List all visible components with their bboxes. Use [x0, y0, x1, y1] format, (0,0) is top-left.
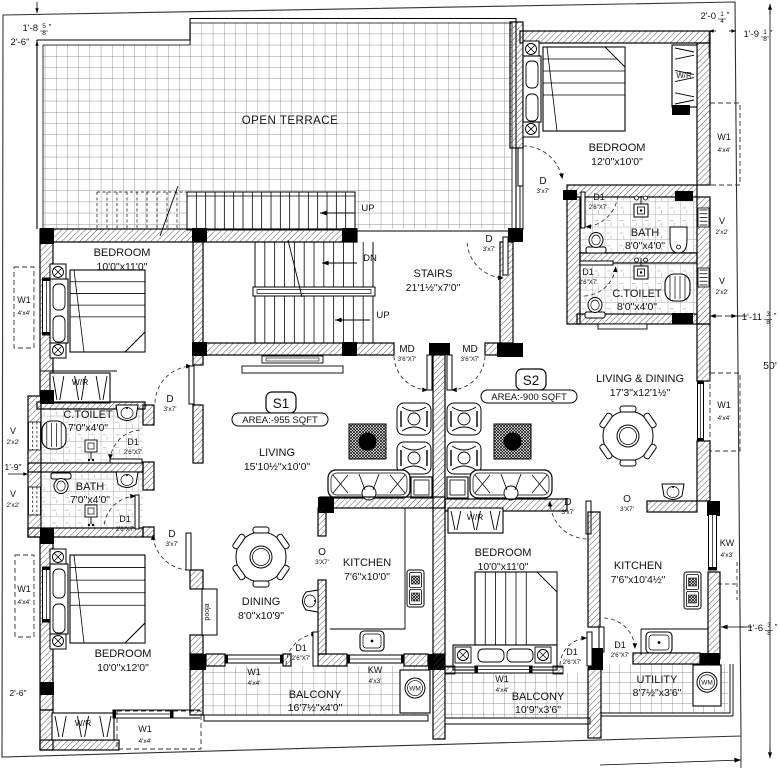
stove S2 [684, 572, 701, 609]
S1 c.toilet floor tiles [41, 405, 143, 463]
terrace border [37, 19, 516, 230]
wall balcony/utility divider [588, 668, 601, 738]
utility outer edge [601, 664, 733, 716]
shower S2 bath [634, 196, 648, 217]
wall S1 bath east upper [143, 462, 154, 490]
svg-text:S1: S1 [273, 396, 290, 411]
wall balcony S1 north c [404, 654, 428, 666]
wall S1 niche south [40, 740, 119, 750]
right property dim vertical [740, 736, 742, 768]
ventilator V S1 ctoilet [29, 422, 41, 450]
svg-text:KW: KW [720, 538, 735, 548]
door arc D S1 bed2 [151, 533, 191, 570]
wall S2 living east lower [697, 441, 710, 501]
svg-text:C.TOILET: C.TOILET [63, 409, 113, 421]
door arc D1 balcony S1 [286, 632, 318, 666]
svg-text:STAIRS: STAIRS [414, 268, 453, 280]
drain S1 bath [85, 505, 97, 526]
wall S1 bedroom2 west bottom [40, 710, 53, 750]
thin wall stub below S2 bedroom west [519, 186, 521, 230]
UP arrow 2 [335, 318, 370, 323]
toilet WC S2 bath [586, 233, 606, 254]
svg-text:2'6"X7': 2'6"X7' [611, 653, 629, 659]
svg-text:2'6"X7': 2'6"X7' [589, 205, 607, 211]
label S1 box [266, 392, 296, 413]
balcony S1 floor [204, 666, 428, 715]
bathtub S2 ctoilet [665, 274, 690, 301]
svg-text:5: 5 [42, 23, 46, 30]
svg-text:": " [727, 11, 730, 20]
wall S1 kitchen west lower [318, 580, 326, 654]
basin S1 ctoilet [116, 405, 138, 421]
svg-text:WM: WM [701, 680, 713, 687]
door arc D1 S2 utility [599, 618, 637, 652]
svg-text:D: D [539, 176, 546, 187]
door arc D S1 bed1 [155, 364, 194, 404]
wardrobe W/R S1 upper [50, 373, 110, 403]
window W1 S1 bedroom2 [43, 567, 51, 622]
dim 1'-11 3/8 right [710, 314, 722, 318]
svg-text:2'-6": 2'-6" [10, 688, 27, 698]
svg-text:2'-0: 2'-0 [700, 11, 716, 22]
dining table S1 [232, 527, 290, 587]
svg-text:DN: DN [363, 253, 377, 264]
svg-text:BATH: BATH [76, 481, 105, 493]
svg-text:DINING: DINING [242, 596, 281, 608]
door arc D1 S1 ctoilet [108, 430, 142, 463]
terrace stair dashed steps [97, 192, 187, 230]
wall S2 ctoilet south [577, 314, 697, 324]
svg-text:BALCONY: BALCONY [289, 689, 342, 701]
column B1 [40, 390, 54, 404]
balcony S1 south edge [204, 715, 428, 721]
wall stairs west [193, 242, 203, 343]
svg-text:1'-9": 1'-9" [5, 462, 22, 472]
column A3 [342, 228, 357, 242]
ventilator V S1 bath [29, 487, 41, 515]
party wall top chunk [429, 343, 450, 355]
basin S1 dining [303, 590, 319, 612]
svg-text:": " [774, 312, 777, 321]
shelf below S2 ctoilet [598, 324, 647, 329]
wall S2 kitchen west [588, 512, 600, 627]
wall line bedroom2/balcony S2 [445, 666, 563, 668]
carpet crosshatch S1 [349, 424, 386, 459]
svg-text:2'x2': 2'x2' [716, 289, 729, 296]
column utility NE [700, 653, 720, 665]
washing machine S2 [693, 665, 721, 706]
svg-text:2'6"X7': 2'6"X7' [579, 280, 597, 286]
sofa S2 [470, 470, 552, 500]
kitchen counter S1 [330, 508, 405, 629]
armchair S1 b [397, 442, 431, 474]
open terrace floor grid [43, 23, 512, 229]
bed S1 bedroom2 [50, 549, 145, 649]
label S2 box [516, 369, 546, 390]
wall S1 bedroom2 west [40, 537, 53, 710]
wall S1 bedroom1 west [40, 242, 53, 396]
bottom dimension line [600, 758, 741, 765]
window W1 balcony S1 [225, 655, 283, 663]
svg-text:10'9"x3'6": 10'9"x3'6" [515, 704, 561, 716]
svg-text:3'X7': 3'X7' [315, 559, 329, 566]
dim 1'-6 3/8 right [721, 625, 744, 630]
svg-text:MD: MD [399, 344, 415, 355]
svg-text:1'-11: 1'-11 [742, 312, 762, 323]
svg-text:8'7½"x3'6": 8'7½"x3'6" [633, 687, 682, 699]
bed S2 bedroom2 vertical [453, 572, 557, 670]
kitchen counter S2 [600, 512, 708, 655]
door arc D1 S2 ctoilet [580, 261, 618, 296]
wall S1 bath south [28, 528, 143, 537]
door arc D stairs [467, 237, 508, 280]
svg-text:7'0"x4'0": 7'0"x4'0" [68, 422, 108, 434]
drain S1 ctoilet [85, 440, 97, 461]
balcony S2 south edge [445, 718, 590, 724]
thin wall above W/R S1 [40, 370, 117, 372]
party wall S1/S2 [433, 355, 445, 655]
svg-text:D: D [168, 529, 175, 540]
svg-text:2'6"X7': 2'6"X7' [124, 450, 142, 456]
svg-text:2'x2': 2'x2' [716, 229, 729, 236]
bed S1 bedroom1 [50, 264, 145, 358]
wall S2-bedroom north [520, 31, 710, 43]
DN arrow [322, 261, 357, 266]
stair opening header line [357, 230, 512, 232]
svg-text:4'x4': 4'x4' [718, 147, 731, 154]
svg-text:MD: MD [462, 344, 478, 355]
shoe rack below stairs [262, 356, 323, 363]
wall S2 living east upper [697, 324, 710, 381]
svg-text:8'0"x10'9": 8'0"x10'9" [238, 610, 284, 622]
stair handrail [253, 287, 375, 296]
svg-text:3'x7': 3'x7' [537, 188, 550, 195]
wall S2 bedroom2 north [445, 499, 567, 511]
wardrobe W/R S2 [672, 45, 697, 107]
svg-text:4'x4': 4'x4' [248, 680, 261, 687]
dashed dim line right mid [718, 583, 737, 585]
svg-text:O: O [318, 547, 326, 558]
svg-text:D: D [485, 234, 492, 245]
stove S1 [407, 570, 424, 607]
svg-text:1'-8: 1'-8 [22, 23, 38, 34]
balcony S2 floor [445, 673, 590, 718]
basin S1 bath [116, 472, 138, 488]
window W1 dashed box left lower [15, 555, 34, 637]
wall balcony S1 north a [206, 654, 225, 666]
svg-text:4'x4': 4'x4' [496, 687, 509, 694]
svg-text:W/R: W/R [676, 71, 692, 80]
column A4 [508, 228, 523, 242]
svg-text:12'0"x10'0": 12'0"x10'0" [591, 156, 643, 168]
svg-text:pooja: pooja [204, 603, 211, 620]
svg-text:3'X7': 3'X7' [620, 506, 634, 513]
svg-text:3'x7': 3'x7' [483, 246, 496, 253]
window W1 dashed box bottom [117, 711, 201, 749]
svg-text:7'6"x10'0": 7'6"x10'0" [344, 571, 390, 583]
svg-text:BEDROOM: BEDROOM [95, 648, 152, 660]
wall corridor/living west upper [193, 355, 203, 365]
door arc D S2 bedroom1 [518, 146, 564, 186]
bathtub S1 ctoilet [42, 421, 66, 449]
window W1 dashed box right upper [710, 103, 740, 185]
ventilator V S2 bath [698, 208, 709, 227]
door arc D1 S2 bath [581, 192, 618, 229]
wall S2-bedroom west [510, 22, 523, 148]
svg-text:10'0"x11'0": 10'0"x11'0" [97, 261, 148, 273]
svg-text:D1: D1 [614, 640, 626, 650]
S2 bath floor tiles [580, 198, 697, 253]
svg-text:2'6"X7': 2'6"X7' [116, 527, 134, 533]
urinal S2 bath [670, 227, 687, 253]
svg-text:10'0"x12'0": 10'0"x12'0" [97, 662, 149, 674]
svg-text:W/R: W/R [467, 512, 484, 522]
washing machine S1 [400, 670, 430, 713]
wardrobe W/R S1 lower [52, 713, 114, 740]
wall S2 kitchen east [708, 572, 720, 659]
bed S2 bedroom1 [523, 41, 625, 137]
column A2 [192, 228, 207, 242]
wall utility north [633, 653, 700, 664]
wall terrace-south [40, 229, 357, 242]
svg-text:LIVING: LIVING [259, 447, 295, 459]
svg-text:V: V [719, 276, 725, 286]
column B2 [192, 342, 207, 356]
svg-text:4'x4': 4'x4' [18, 310, 31, 317]
svg-text:4'x4': 4'x4' [718, 415, 731, 422]
svg-text:16'7½"x4'0": 16'7½"x4'0" [288, 702, 343, 714]
svg-text:W/R: W/R [72, 377, 89, 387]
svg-text:BEDROOM: BEDROOM [475, 547, 532, 559]
window KW S2 [709, 512, 717, 570]
svg-text:V: V [719, 216, 725, 226]
wall stairs south east part [485, 343, 500, 355]
svg-text:3: 3 [766, 311, 770, 318]
column R1 [675, 191, 693, 201]
wall S2 living south [647, 501, 697, 512]
svg-text:W1: W1 [138, 724, 152, 734]
wall S1 kitchen west upper [318, 508, 326, 536]
side table S2 [447, 477, 468, 498]
svg-text:V: V [10, 426, 16, 436]
window W1 balcony S2 [475, 666, 532, 673]
wall corridor/living west mid [193, 405, 203, 463]
shelf below stairs 2 [242, 366, 343, 373]
window KW S1 [347, 655, 404, 663]
svg-text:W1: W1 [717, 400, 731, 410]
wall S1 bedroom2 east upper [190, 570, 203, 589]
column B4 [497, 343, 523, 357]
svg-text:15'10½"x10'0": 15'10½"x10'0" [244, 461, 311, 473]
svg-text:WM: WM [409, 686, 421, 693]
wall S1 bedroom2 east lower [190, 635, 203, 665]
door arc D1 S1 bath [104, 494, 139, 529]
door arc MD S1 [394, 355, 432, 392]
armchair S1 a [397, 403, 431, 435]
svg-text:8: 8 [766, 319, 770, 326]
sofa S1 [328, 470, 410, 500]
svg-text:3'6"X7': 3'6"X7' [461, 357, 479, 363]
svg-text:7'6"x10'4½": 7'6"x10'4½" [611, 574, 666, 586]
svg-text:21'1½"x7'0": 21'1½"x7'0" [406, 282, 461, 294]
column A1 [40, 228, 54, 244]
svg-text:": " [49, 23, 52, 32]
wardrobe W/R S2 lower [448, 508, 503, 533]
kitchen sink S2 [646, 632, 672, 653]
terrace stair flight [187, 192, 355, 230]
svg-text:W1: W1 [247, 667, 261, 677]
svg-text:3'6"X7': 3'6"X7' [398, 357, 416, 363]
wall S2-bedroom east upper [697, 43, 710, 185]
svg-text:W1: W1 [17, 584, 31, 594]
svg-text:D1: D1 [593, 192, 605, 202]
svg-text:2'x2': 2'x2' [7, 439, 20, 446]
svg-text:AREA:-900 SQFT: AREA:-900 SQFT [491, 392, 567, 403]
svg-text:2'-6": 2'-6" [11, 37, 30, 48]
column C1 [40, 528, 54, 544]
column S2 living SE [707, 501, 720, 516]
svg-text:7'0"x4'0": 7'0"x4'0" [70, 494, 110, 506]
party wall bottom extension [433, 654, 445, 739]
svg-text:2'6"X7': 2'6"X7' [292, 656, 310, 662]
svg-text:D1: D1 [119, 514, 131, 524]
wall balcony S1 north b [283, 654, 291, 666]
svg-text:W1: W1 [495, 674, 509, 684]
svg-text:4'x4': 4'x4' [18, 599, 31, 606]
column C2 [40, 682, 54, 695]
door arc D1 S2 balcony [560, 632, 592, 666]
svg-text:KW: KW [368, 665, 383, 675]
svg-text:C.TOILET: C.TOILET [612, 288, 662, 300]
column S2 balcony east [588, 648, 603, 670]
S2 c.toilet floor tiles [577, 263, 697, 314]
wall S1 toilets west [28, 396, 41, 537]
svg-text:2'x2': 2'x2' [7, 502, 20, 509]
label AREA S1 [232, 413, 328, 426]
kitchen sink S1 [360, 631, 384, 651]
svg-text:KITCHEN: KITCHEN [343, 557, 391, 569]
svg-text:D1: D1 [295, 643, 307, 653]
svg-text:UTILITY: UTILITY [637, 674, 679, 686]
column S2 bedroom [672, 105, 690, 115]
toilet WC S1 bath [51, 473, 71, 494]
wall S1 bath east lower [143, 527, 154, 537]
wall stub balcony S2 left [445, 666, 455, 674]
stair DN flight [255, 242, 373, 343]
svg-text:S2: S2 [523, 373, 540, 388]
column B3 [342, 342, 357, 356]
svg-text:UP: UP [361, 203, 374, 214]
svg-text:10'0"x11'0": 10'0"x11'0" [478, 561, 529, 573]
stair UP flight [255, 296, 373, 343]
S1 bath floor tiles [41, 472, 143, 528]
ventilator V S2 ctoilet [698, 268, 709, 287]
carpet crosshatch S2 [494, 424, 531, 459]
svg-text:3'x7': 3'x7' [562, 509, 575, 516]
window W1 dashed box right lower [710, 373, 740, 451]
utility floor [601, 664, 728, 713]
svg-text:OPEN TERRACE: OPEN TERRACE [242, 115, 339, 127]
svg-text:AREA:-955 SQFT: AREA:-955 SQFT [242, 415, 318, 426]
window W1 S2 living [698, 381, 704, 441]
stair break line [160, 186, 178, 236]
toilet WC S2 ctoilet [585, 298, 605, 319]
svg-text:8'0"x4'0": 8'0"x4'0" [625, 240, 665, 252]
svg-text:4'x3': 4'x3' [369, 678, 382, 685]
svg-text:3'x7': 3'x7' [166, 541, 179, 548]
svg-text:3: 3 [767, 622, 771, 629]
stair break line 2 [288, 240, 302, 297]
column S1 living SW [318, 497, 334, 513]
door arc D S2 bed2 [548, 501, 591, 539]
wall S1 ctoilet north [37, 402, 145, 409]
armchair S2 a [447, 403, 481, 435]
svg-text:1'-6: 1'-6 [747, 623, 763, 634]
window W1 S1 bedroom1 [43, 278, 51, 335]
svg-text:4'x3': 4'x3' [721, 552, 734, 559]
svg-text:8'0"x4'0": 8'0"x4'0" [617, 301, 657, 313]
svg-text:O: O [623, 494, 631, 505]
right dimension line [769, 4, 771, 758]
svg-text:KITCHEN: KITCHEN [614, 560, 662, 572]
svg-text:2'6"X7': 2'6"X7' [563, 660, 581, 666]
svg-text:BATH: BATH [631, 227, 660, 239]
svg-text:LIVING & DINING: LIVING & DINING [596, 373, 684, 385]
label AREA S2 [481, 390, 577, 403]
svg-text:1: 1 [720, 11, 724, 18]
wall S1 toilets divider [28, 463, 143, 472]
svg-text:": " [775, 623, 778, 632]
window W1 S1 bedroom2 south [113, 710, 173, 718]
svg-text:D1: D1 [582, 267, 594, 277]
door arc MD S2 [447, 355, 485, 392]
svg-text:W/R: W/R [75, 718, 92, 728]
pooja shelf [202, 589, 217, 635]
wall S1 ctoilet east [143, 405, 154, 425]
svg-text:D: D [564, 497, 571, 508]
column balcony S1 [190, 654, 206, 670]
column party wall bottom [428, 654, 445, 670]
svg-text:W1: W1 [717, 132, 731, 142]
dining table S2 [599, 406, 657, 466]
basin ledge S2 [662, 484, 684, 500]
svg-text:V: V [10, 489, 16, 499]
wall balcony S1 north b2 [318, 654, 347, 666]
window W1 dashed box left upper [14, 267, 34, 348]
armchair S2 b [447, 442, 481, 474]
svg-text:1: 1 [763, 29, 767, 36]
top right dim arrows [709, 29, 716, 32]
svg-text:17'3"x12'1½": 17'3"x12'1½" [610, 387, 671, 399]
svg-text:BEDROOM: BEDROOM [94, 247, 151, 259]
wall stairs south west part [203, 343, 394, 355]
svg-text:3'x7': 3'x7' [164, 406, 177, 413]
svg-text:50': 50' [763, 360, 777, 372]
wall S2 bath/ctoilet divider [580, 253, 697, 263]
side table S1 [411, 477, 432, 498]
svg-text:BALCONY: BALCONY [512, 691, 565, 703]
wall S1 living south [320, 497, 445, 508]
svg-text:1'-9: 1'-9 [743, 29, 759, 40]
thin wall S1 bedroom2 south with window [113, 709, 200, 711]
svg-text:BEDROOM: BEDROOM [589, 142, 646, 154]
column R2 [672, 313, 693, 324]
svg-text:D1: D1 [566, 647, 578, 657]
wall stub balcony S2 right [553, 666, 563, 674]
wall stairs east [500, 242, 513, 343]
svg-text:4'x4': 4'x4' [139, 738, 152, 745]
svg-text:D: D [166, 394, 173, 405]
